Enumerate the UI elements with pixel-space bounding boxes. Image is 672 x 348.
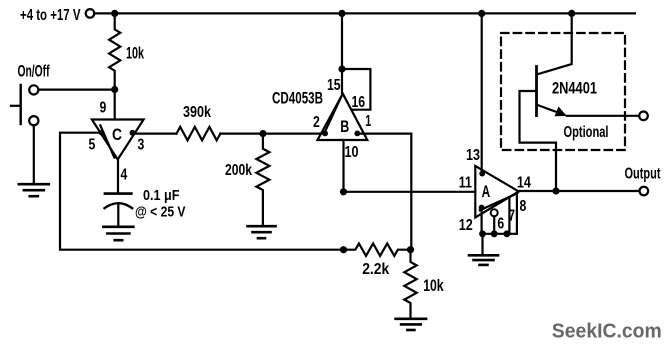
svg-text:390k: 390k	[183, 104, 211, 121]
label C	[112, 126, 122, 144]
label B	[340, 118, 349, 136]
svg-text:10k: 10k	[423, 277, 444, 295]
ground (capacitor)	[103, 227, 133, 240]
label pin 8	[520, 198, 527, 215]
svg-text:A: A	[482, 183, 491, 201]
junction node: pin 15 / pin 16 loop	[338, 65, 345, 72]
wire pin 6 to ground bus	[493, 216, 495, 234]
resistor 10k (lower)	[404, 250, 416, 317]
transistor Q1 emitter with arrow	[538, 105, 567, 116]
pushbutton switch S1	[11, 85, 38, 125]
junction node: pin 10 / pin 11 wire	[340, 188, 347, 195]
resistor 2.2k	[344, 244, 411, 256]
junction node: output / 2N4401 base	[552, 187, 559, 194]
buffer B (1/3 CD4053B)	[318, 94, 368, 140]
resistor 200k	[256, 134, 269, 225]
svg-text:2.2k: 2.2k	[362, 261, 389, 278]
label CD4053B	[272, 88, 323, 107]
pin 12 connection dot	[479, 205, 485, 211]
svg-text:+4 to +17 V: +4 to +17 V	[20, 7, 81, 24]
wire button top contact to 10k junction	[38, 88, 114, 90]
label 390k	[183, 104, 211, 121]
svg-text:2: 2	[313, 114, 320, 131]
wire 390k to pin 2 of B	[220, 133, 325, 135]
wire pin 8 to ground bus	[516, 193, 518, 234]
svg-text:0.1 μF: 0.1 μF	[143, 187, 180, 204]
svg-text:9: 9	[100, 100, 107, 117]
junction node bus/pin7	[504, 230, 511, 237]
svg-text:SeekIC.com: SeekIC.com	[552, 320, 662, 343]
label pin 1	[365, 113, 371, 130]
resistor 390k	[177, 127, 221, 140]
svg-text:200k: 200k	[225, 162, 252, 179]
label pin 12	[459, 217, 473, 234]
pin 3 connection dot	[130, 130, 136, 136]
junction node: feedback / 2.2k	[340, 246, 347, 253]
wire pin 7 to ground bus	[508, 197, 510, 233]
pin 2 connection dot	[322, 131, 328, 137]
svg-text:11: 11	[459, 174, 472, 191]
wire A output pin 14	[519, 190, 640, 192]
svg-text:4: 4	[121, 167, 128, 184]
label On/Off	[18, 63, 50, 81]
pin 1 connection dot	[354, 131, 360, 137]
label pin 9	[100, 100, 107, 117]
svg-text:3: 3	[138, 137, 145, 154]
ground (200k)	[248, 226, 276, 238]
wire pin 10	[342, 140, 344, 192]
transistor Q1 2N4401 collector wire	[538, 13, 572, 74]
svg-text:Output: Output	[625, 166, 661, 183]
svg-text:B: B	[340, 118, 349, 136]
ground (pushbutton)	[19, 184, 49, 196]
label pin 4	[121, 167, 128, 184]
pin 13 connection dot	[479, 171, 485, 177]
svg-text:14: 14	[517, 174, 531, 191]
ground bus under A	[482, 233, 517, 235]
svg-text:10k: 10k	[126, 45, 145, 63]
capacitor 0.1 uF plate +	[105, 192, 131, 195]
label pin 13	[466, 147, 480, 164]
ground (comparator A)	[469, 255, 498, 265]
label pin 15	[327, 77, 341, 94]
wire ground bus to ground	[481, 234, 483, 254]
svg-text:On/Off: On/Off	[18, 63, 50, 81]
junction node: rail / 10k resistor	[111, 10, 118, 17]
wire pin 16 loop	[342, 69, 370, 110]
optional output terminal	[639, 112, 648, 121]
comparator A (1/3 CD4053B)	[475, 166, 519, 218]
wire pin 5 feedback to bottom rail	[60, 133, 344, 250]
wire pin 15 from rail	[341, 13, 343, 93]
svg-text:8: 8	[520, 198, 527, 215]
wire 2N4401 base to A output	[520, 91, 557, 191]
junction node: rail / pin 13	[478, 10, 485, 17]
svg-text:16: 16	[352, 94, 366, 111]
junction node: 2.2k / 10k / pin 1	[407, 246, 414, 253]
wire top supply rail	[94, 12, 635, 14]
wire pin 4 of C	[117, 160, 119, 194]
svg-text:15: 15	[327, 77, 341, 94]
capacitor 0.1 uF curved plate	[105, 203, 133, 208]
svg-text:2N4401: 2N4401	[552, 79, 597, 98]
label @ < 25 V	[135, 204, 186, 221]
label 10k (lower)	[423, 277, 444, 295]
junction node: 390k / 200k / pin 2	[259, 130, 266, 137]
label 10k	[126, 45, 145, 63]
label pin 16	[352, 94, 366, 111]
label pin 5	[89, 137, 96, 154]
label 200k	[225, 162, 252, 179]
transistor Q1 2N4401	[535, 67, 538, 116]
label pin 6	[497, 215, 504, 232]
wire emitter to optional terminal	[567, 115, 639, 117]
svg-text:C: C	[112, 126, 122, 144]
svg-text:10: 10	[345, 144, 359, 161]
label pin 7	[509, 208, 515, 225]
label 2.2k	[362, 261, 389, 278]
label pin 2	[313, 114, 320, 131]
inverter C (1/3 CD4053B)	[92, 120, 144, 160]
wire capacitor to ground	[117, 204, 119, 226]
label 0.1 uF	[143, 187, 180, 204]
watermark SeekIC.com	[552, 320, 662, 343]
svg-text:5: 5	[89, 137, 96, 154]
wire pin 3 output	[132, 133, 176, 135]
wire pin 13 from rail	[481, 13, 483, 171]
label Output	[625, 166, 661, 183]
svg-text:CD4053B: CD4053B	[272, 88, 323, 107]
junction node bus/pin6	[491, 230, 498, 237]
output terminal	[640, 187, 649, 196]
wire pin 9 of C	[114, 90, 116, 120]
wire pin 11 of A	[344, 191, 476, 193]
label pin 14	[517, 174, 531, 191]
wire button bottom contact to ground	[33, 125, 35, 183]
dashed box Optional	[501, 33, 625, 150]
pin 5 connection dot	[99, 130, 105, 136]
junction node: rail / pin 15	[338, 10, 345, 17]
label +4 to +17 V	[20, 7, 81, 24]
svg-text:12: 12	[459, 217, 473, 234]
label pin 11	[459, 174, 472, 191]
resistor 10k (pull-up)	[109, 13, 120, 89]
label pin 10	[345, 144, 359, 161]
svg-text:7: 7	[509, 208, 515, 225]
junction node: 10k / button / pin 9	[111, 86, 118, 93]
wire pin 12 to ground bus	[481, 208, 483, 234]
svg-text:@ < 25 V: @ < 25 V	[135, 204, 186, 221]
junction node: rail / 2N4401 collector	[568, 10, 575, 17]
label pin 3	[138, 137, 145, 154]
svg-text:1: 1	[365, 113, 371, 130]
svg-text:6: 6	[497, 215, 504, 232]
power terminal +4 to +17 V	[86, 9, 95, 18]
svg-text:Optional: Optional	[564, 124, 609, 141]
label 2N4401	[552, 79, 597, 98]
wire pin 1 output down to 2.2k/10k node	[357, 134, 411, 250]
label Optional	[564, 124, 609, 141]
junction node bus/pin12	[479, 230, 486, 237]
svg-text:13: 13	[466, 147, 480, 164]
ground (10k lower)	[396, 319, 427, 330]
pin 6 bubble	[491, 209, 498, 216]
label A	[482, 183, 491, 201]
